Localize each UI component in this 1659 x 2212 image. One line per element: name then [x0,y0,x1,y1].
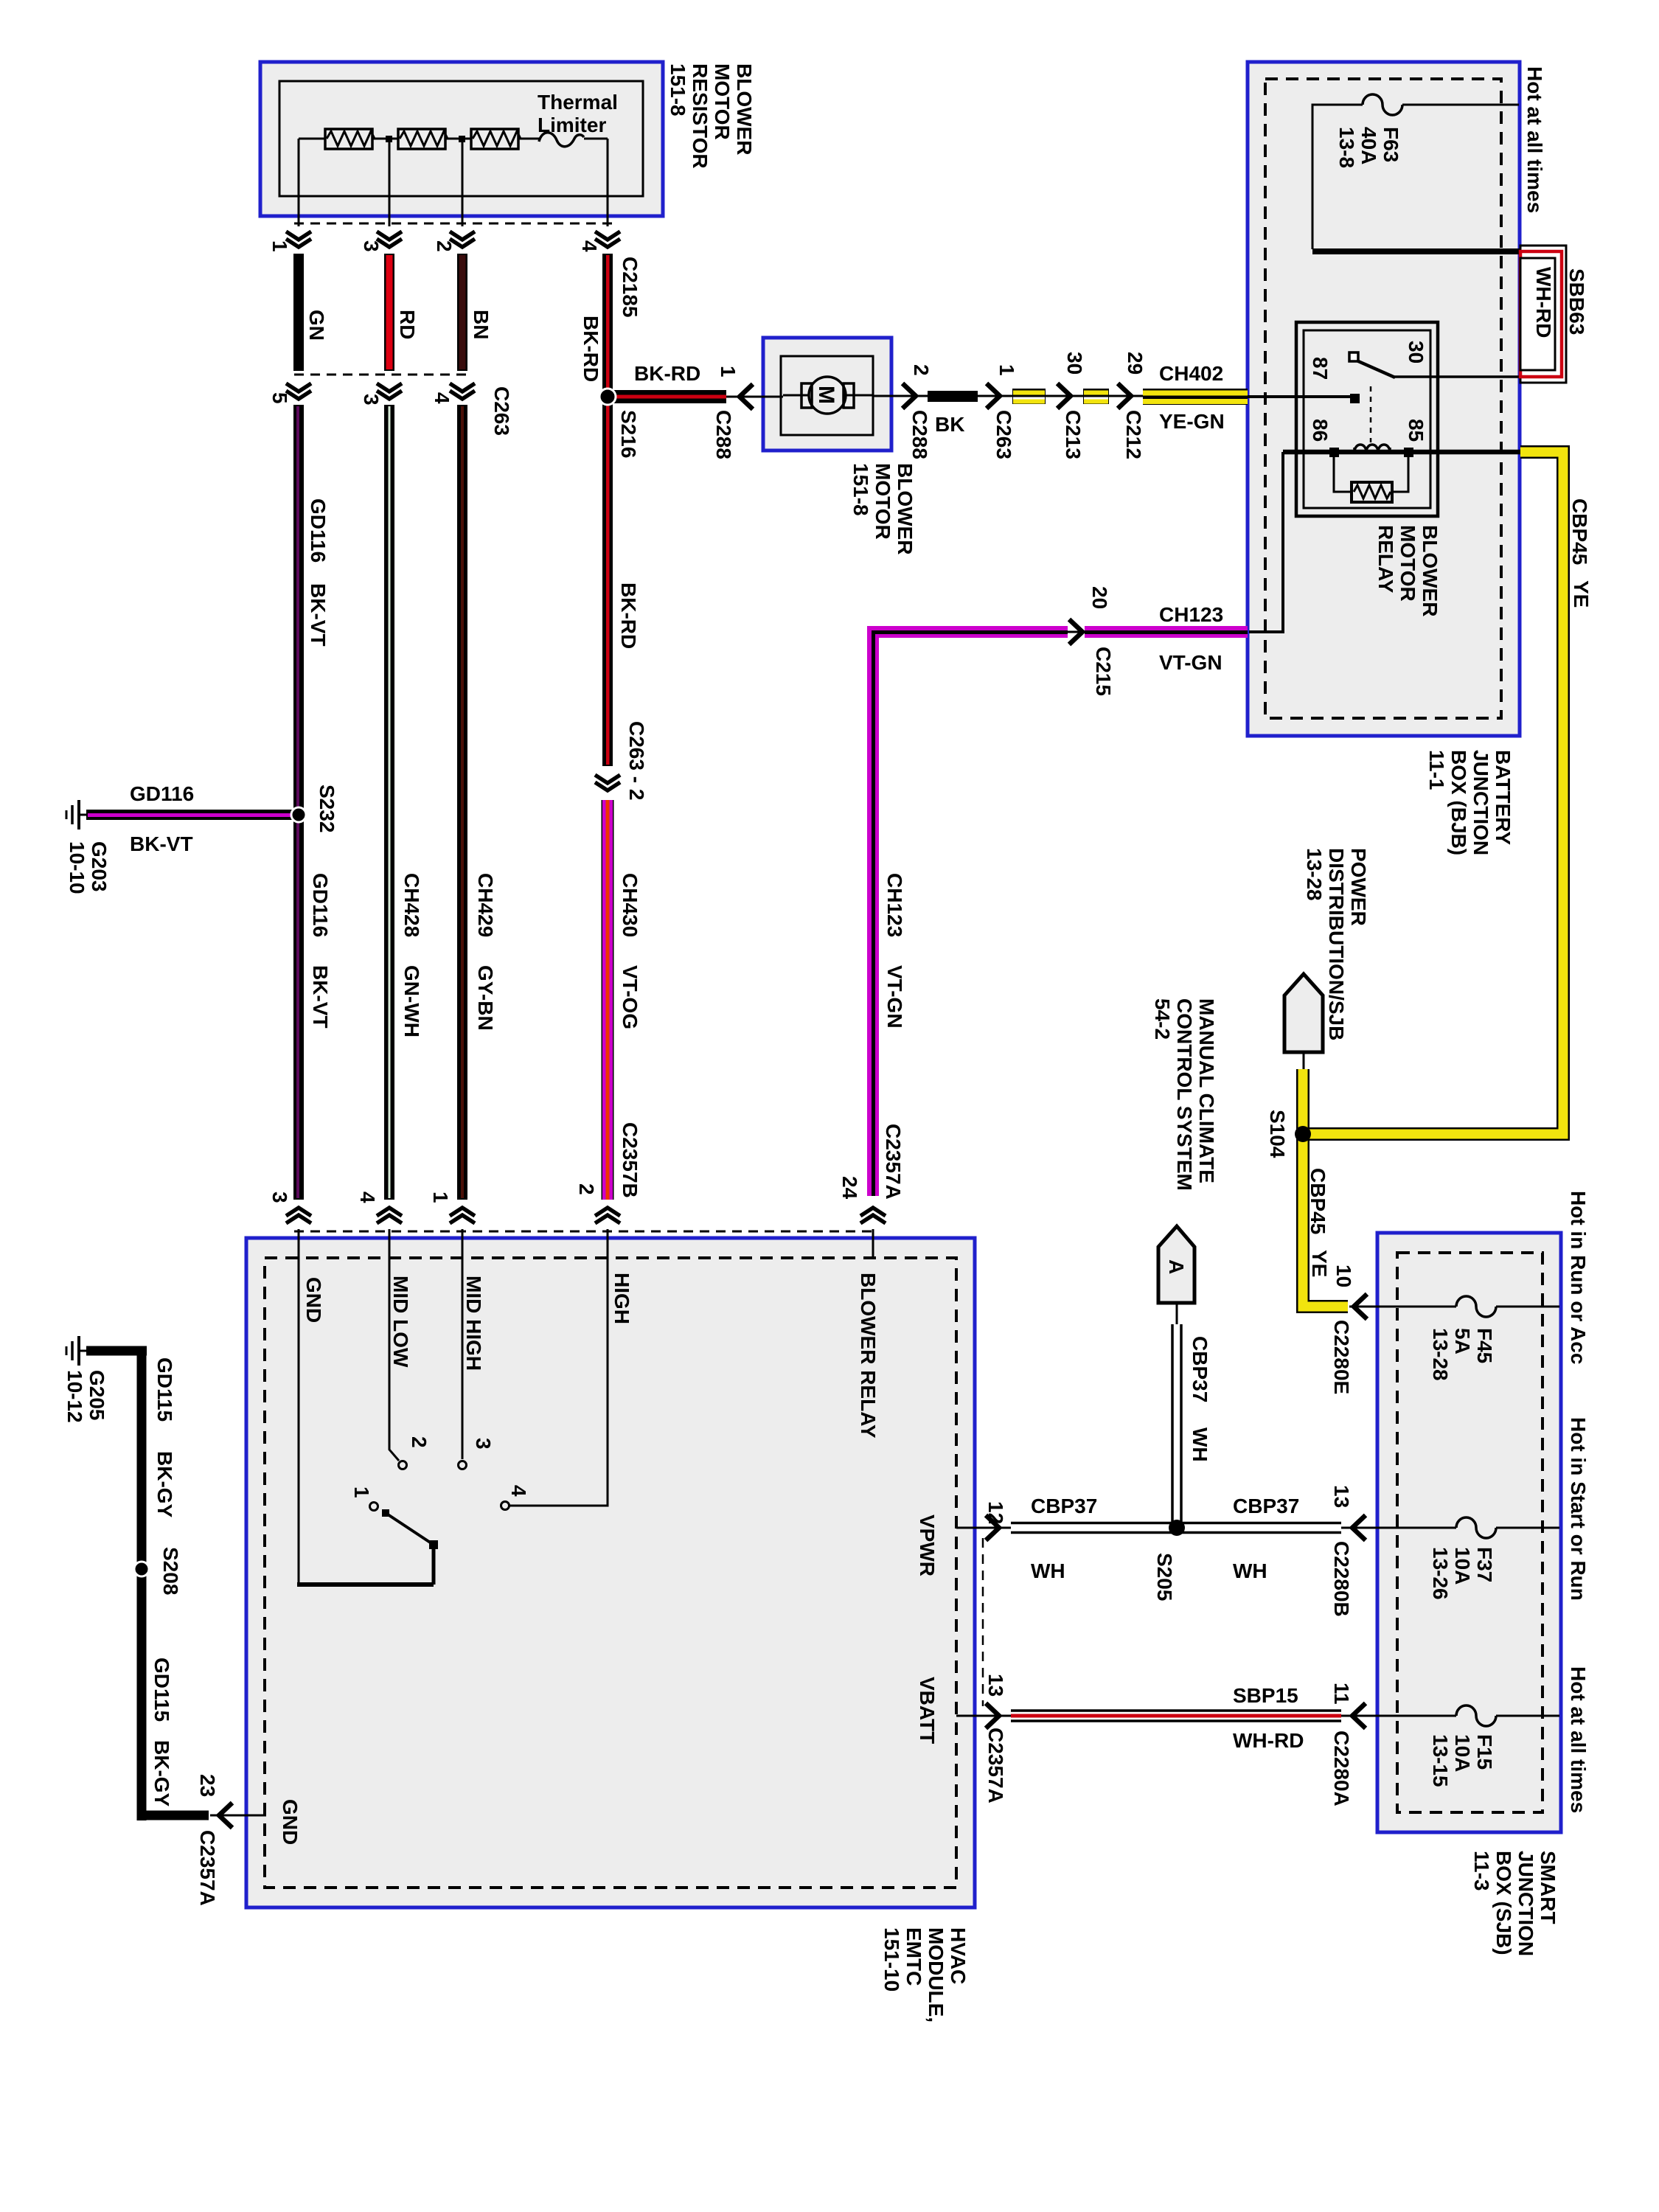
wire CBP37 WH right segment [1180,1523,1341,1533]
connector C215 arrow pin20 [1068,631,1085,633]
connector C288 arrow pin2 [902,383,916,408]
svg-text:3: 3 [360,394,383,406]
blower motor M symbol [801,377,854,414]
connector C263 arrow pin5 [286,383,311,399]
connector S104 pentagon (power distribution) [1284,974,1323,1052]
wire: CH402 into BJB to relay 87 [1248,395,1351,398]
wire BK-RD horizontal branch to motor [608,390,726,403]
svg-text:GN-WH: GN-WH [400,965,423,1037]
relay actuation dashed link [1370,386,1372,442]
connector C263 arrow pin4 [450,383,475,399]
wire: hvac GND internal [298,1229,300,1583]
svg-text:CH429: CH429 [474,873,497,937]
connector A pentagon [1158,1226,1194,1303]
splice S216 junction dot [599,389,616,405]
svg-text:GY-BN: GY-BN [474,965,497,1031]
connector C2357B arrow pin3 (GND) [286,1208,311,1223]
resistor element R3 of blower resistor [471,129,521,149]
svg-text:WH: WH [1233,1559,1267,1582]
wire CH123 VT-GN elbow [873,632,1248,1196]
connector C2185 arrow pin4 [595,232,620,247]
svg-text:GND: GND [279,1799,302,1845]
connector C263 arrow pin1 [987,383,1000,408]
svg-text:GD116: GD116 [130,782,194,805]
wire BN pin2 segment [457,254,467,371]
connector C2280A arrow pin11 [1352,1703,1366,1728]
connector C263 dashed line [294,374,473,376]
svg-text:30: 30 [1405,341,1427,364]
svg-text:BK-VT: BK-VT [307,583,330,647]
fuse F15 wire [1341,1715,1559,1717]
svg-text:VT-GN: VT-GN [1159,651,1222,674]
SBB63 connector box [1520,246,1566,383]
wire: hvac VBATT stub [956,1715,1011,1717]
svg-text:C2357B: C2357B [619,1122,641,1198]
svg-text:BK: BK [935,413,964,436]
splice S104 junction dot [1295,1126,1311,1142]
connector C2357B arrow pin2 (HIGH) [595,1208,620,1223]
svg-text:C263: C263 [992,410,1015,459]
svg-text:C263 - 2: C263 - 2 [625,721,648,800]
wire: 86 branch down to CH123 entry [1249,452,1283,632]
blower motor relay box [1296,322,1438,516]
wire: hvac HIGH internal [509,1229,608,1506]
wire CBP37 WH vertical from A [1172,1324,1181,1522]
wire: relay 30 to SBB63 [1394,375,1522,378]
svg-text:BK-GY: BK-GY [150,1740,173,1807]
svg-text:BLOWER RELAY: BLOWER RELAY [857,1273,880,1439]
wire SBP15 WH-RD segment [1011,1711,1341,1721]
svg-text:C213: C213 [1062,410,1085,459]
wire: S104 pentagon stem [1303,1052,1305,1071]
svg-text:BK-VT: BK-VT [130,832,193,855]
svg-text:3: 3 [472,1438,495,1450]
svg-text:WH-RD: WH-RD [1532,267,1555,338]
svg-text:GD115: GD115 [150,1658,173,1722]
svg-text:CH430: CH430 [619,873,641,937]
svg-text:3: 3 [268,1192,291,1203]
svg-text:12: 12 [984,1501,1007,1524]
svg-text:MID LOW: MID LOW [389,1276,412,1368]
junction between R1 R2 [386,136,392,142]
wire: resistor pin2 drop [462,139,464,226]
svg-text:BK-GY: BK-GY [153,1451,176,1518]
svg-text:1: 1 [350,1486,373,1498]
hvac connector dashed line C2357 [294,1231,877,1233]
svg-text:4: 4 [431,392,453,404]
fuse F15 symbol [1456,1705,1496,1726]
svg-text:1: 1 [717,366,740,378]
svg-text:1: 1 [429,1192,452,1203]
svg-text:C263: C263 [490,386,513,436]
svg-text:VT-OG: VT-OG [619,965,641,1029]
wire: hvac MID HIGH internal [462,1229,464,1459]
svg-text:VPWR: VPWR [916,1514,939,1576]
connector C2185 arrow pin1 [286,232,311,247]
svg-text:YE: YE [1570,580,1593,608]
svg-text:C288: C288 [908,410,931,459]
svg-text:C2357A: C2357A [984,1728,1007,1804]
blower motor resistor box 151-8 [260,62,663,216]
wire: motor internal right [846,394,873,397]
relay coil left junction [1329,448,1339,457]
relay switch arm [1357,361,1395,378]
svg-text:VT-GN: VT-GN [883,965,906,1029]
svg-text:20: 20 [1088,586,1111,609]
svg-text:24: 24 [838,1176,861,1200]
switch pivot dot [382,1509,389,1517]
svg-text:11: 11 [1330,1683,1353,1705]
splice S205 junction dot [1169,1520,1185,1536]
switch contact circle pin3 (MID HIGH) [459,1461,467,1470]
svg-text:G20510-12: G20510-12 [63,1370,108,1423]
connector C263 arrow pin3 [377,383,402,399]
switch pivot circle pin1 [370,1503,378,1511]
svg-text:GD116: GD116 [307,498,330,563]
smart junction box SJB [1377,1233,1561,1832]
resistor element R2 of blower resistor [398,129,448,149]
wire GD115 BK-GY upper [86,1346,209,1820]
svg-text:CH428: CH428 [400,873,423,937]
svg-text:WH: WH [1031,1559,1065,1582]
connector C2185 arrow pin3 [377,232,402,247]
svg-text:S208: S208 [159,1547,182,1595]
relay 87 contact dot [1350,394,1360,403]
blower motor box 151-8 [763,338,891,451]
svg-text:Thermal: Thermal [538,91,618,114]
thermal limiter symbol [539,133,584,147]
wire BK-RD pin4 segment (C2185 to C263-2) [602,254,613,766]
fuse F37 symbol [1456,1517,1496,1538]
wire CH428 GN-WH segment [384,405,394,1200]
svg-text:CBP45: CBP45 [1568,498,1591,565]
switch wiper contact dot [429,1540,438,1549]
svg-text:4: 4 [507,1485,530,1497]
connector C212 arrow pin29 [1118,383,1131,408]
svg-text:C2280E: C2280E [1330,1320,1353,1394]
svg-text:S104: S104 [1266,1110,1289,1158]
fuse F45 symbol [1456,1296,1496,1317]
svg-text:CBP45: CBP45 [1307,1168,1329,1234]
connector C2185 dashed line [294,223,613,225]
wire: motor internal left [783,394,809,397]
connector C2357A arrow pin24 [860,1208,886,1223]
connector C213 arrow pin30 [1057,383,1071,408]
switch contact circle pin2 (MID LOW) [399,1461,407,1470]
svg-text:RD: RD [396,310,419,339]
svg-text:M: M [814,386,838,404]
relay internal resistor wires [1334,456,1408,492]
svg-text:Hot in Start or Run: Hot in Start or Run [1567,1417,1590,1601]
wire: hvac MID LOW internal [389,1229,399,1461]
wire GN pin1 segment [293,254,304,371]
wire RD pin3 segment [384,254,394,371]
svg-text:4: 4 [356,1192,379,1203]
svg-text:2: 2 [910,364,933,376]
svg-text:CBP37: CBP37 [1233,1495,1299,1517]
wire: A pentagon stem [1176,1303,1178,1324]
svg-text:C2280B: C2280B [1330,1541,1353,1617]
svg-text:30: 30 [1063,352,1086,375]
svg-text:GD116: GD116 [309,873,332,937]
connector C2280B arrow pin13 [1352,1515,1366,1540]
wire: resistor pin4 drop [607,139,609,226]
fuse F37 wire [1341,1527,1559,1529]
svg-text:Limiter: Limiter [538,114,606,136]
svg-text:2: 2 [433,240,456,252]
svg-text:GND: GND [302,1277,325,1323]
svg-text:3: 3 [360,240,383,252]
svg-text:CBP37: CBP37 [1189,1336,1211,1402]
ground G205 symbol [66,1336,89,1366]
svg-text:4: 4 [578,240,601,252]
relay coil [1354,445,1390,452]
svg-text:YE-GN: YE-GN [1159,410,1225,433]
svg-text:13: 13 [1330,1485,1353,1508]
svg-text:C2357A: C2357A [882,1124,905,1200]
svg-text:Hot in Run or Acc: Hot in Run or Acc [1567,1191,1590,1364]
svg-text:F6340A13-8: F6340A13-8 [1335,127,1402,168]
svg-text:86: 86 [1309,419,1332,442]
fuse F63 symbol [1363,94,1402,115]
svg-text:13: 13 [984,1674,1007,1697]
svg-text:HIGH: HIGH [611,1273,633,1324]
svg-text:Hot at all times: Hot at all times [1523,66,1546,213]
svg-text:BN: BN [470,310,493,339]
wire: arrow to hvac box GND [210,1815,266,1817]
svg-text:BK-RD: BK-RD [634,362,700,385]
svg-text:BK-RD: BK-RD [580,316,602,382]
svg-text:10: 10 [1332,1265,1355,1287]
svg-text:WH-RD: WH-RD [1233,1729,1304,1752]
connector C2357B arrow pin4 (MID LOW) [377,1208,402,1223]
svg-text:C2357A: C2357A [196,1830,219,1906]
wire: arrow to motor box [726,396,783,398]
svg-text:BK-VT: BK-VT [309,965,332,1029]
svg-text:87: 87 [1309,357,1332,380]
wire GD116 BK-VT ground branch [86,810,299,820]
battery junction box BJB [1248,62,1520,736]
svg-text:C2185: C2185 [619,257,641,318]
svg-text:C212: C212 [1122,410,1145,459]
relay internal resistor [1352,482,1392,502]
svg-text:85: 85 [1405,419,1427,442]
splice S232 junction dot [291,807,306,822]
svg-text:S216: S216 [617,410,640,458]
svg-text:S205: S205 [1153,1553,1176,1601]
svg-text:GN: GN [305,310,328,341]
wire: resistor pin1 drop [298,139,300,226]
wire YE segment C213-C212 [1083,389,1109,404]
svg-text:MID HIGH: MID HIGH [462,1276,485,1371]
svg-text:5: 5 [268,392,291,404]
wire: BK to C263 arrow [978,395,1143,397]
svg-text:G20310-10: G20310-10 [66,841,111,894]
wire: motor to C288 arrow pin2 [873,395,928,397]
relay switch contact square [1349,352,1358,361]
connector C2357A arrow pin12 [986,1515,999,1540]
svg-text:29: 29 [1124,352,1147,375]
svg-text:2: 2 [408,1436,431,1448]
wire: hvac GND bottom run [297,1582,434,1587]
wire: hvac VPWR stub [956,1527,1011,1529]
connector C263-2 arrow [595,775,620,790]
svg-text:C2280A: C2280A [1330,1731,1353,1806]
svg-text:Hot at all times: Hot at all times [1567,1666,1590,1813]
HVAC module box [246,1238,975,1907]
ground G203 symbol [66,800,89,829]
svg-text:CH402: CH402 [1159,362,1223,385]
wire CBP45 YE from relay [1303,452,1563,1307]
connector C2357B arrow pin1 (MID HIGH) [450,1208,475,1223]
switch arm diagonal [386,1513,434,1545]
svg-text:SBB63: SBB63 [1565,268,1588,335]
svg-text:S232: S232 [316,785,338,832]
svg-text:CBP37: CBP37 [1031,1495,1097,1517]
wire CH430 VT-OG segment [602,800,614,1200]
svg-text:23: 23 [196,1774,219,1797]
resistor element R1 of blower resistor [325,129,375,149]
svg-text:GD115: GD115 [153,1357,176,1422]
wire: relay coil line 86-85 [1283,450,1520,455]
wire BK segment [928,391,978,402]
svg-text:WH: WH [1189,1427,1211,1462]
svg-text:CH123: CH123 [883,873,906,937]
wire GD116 BK-VT segment [293,405,304,1200]
svg-text:C288: C288 [712,410,735,459]
fuse F63 wire loop [1312,105,1519,249]
switch contact circle pin4 (HIGH) [501,1502,509,1510]
wire: F63 to SBB63 heavy feed [1312,248,1520,254]
svg-text:C215: C215 [1092,647,1115,696]
wire: switch output vertical [432,1545,436,1585]
svg-text:A: A [1165,1259,1188,1274]
wire: resistor chain horizontal [299,138,608,140]
svg-text:1: 1 [995,364,1018,376]
wire: pin24 stub into hvac dashed box [872,1229,874,1258]
wire CH402 YE-GN segment [1143,389,1248,405]
splice S208 junction dot [134,1562,149,1576]
junction between R2 R3 [459,136,465,142]
connector C288 arrow (motor pin1) [740,384,753,409]
wire: resistor pin3 drop [389,139,391,226]
connector C2357A arrow pin23 (GND) [219,1803,232,1828]
wire CH429 GY-BN segment [457,405,467,1200]
connector C2357A arrow pin13 [986,1703,999,1728]
wire CBP37 WH left segment [1011,1523,1173,1533]
svg-text:VBATT: VBATT [916,1677,939,1744]
connector C2185 arrow pin2 [450,232,475,247]
fuse F45 wire [1349,1306,1559,1308]
svg-text:2: 2 [575,1183,598,1195]
svg-text:YE: YE [1308,1250,1331,1277]
wire YE segment C263-C213 [1012,389,1046,404]
connector dashed boundary pins 12-13 [982,1538,984,1706]
svg-text:CH123: CH123 [1159,603,1223,626]
svg-text:1: 1 [268,240,291,252]
relay coil right junction [1404,448,1413,457]
connector C2280E arrow pin10 [1354,1294,1367,1319]
svg-text:SBP15: SBP15 [1233,1684,1298,1707]
svg-text:BK-RD: BK-RD [617,582,640,649]
